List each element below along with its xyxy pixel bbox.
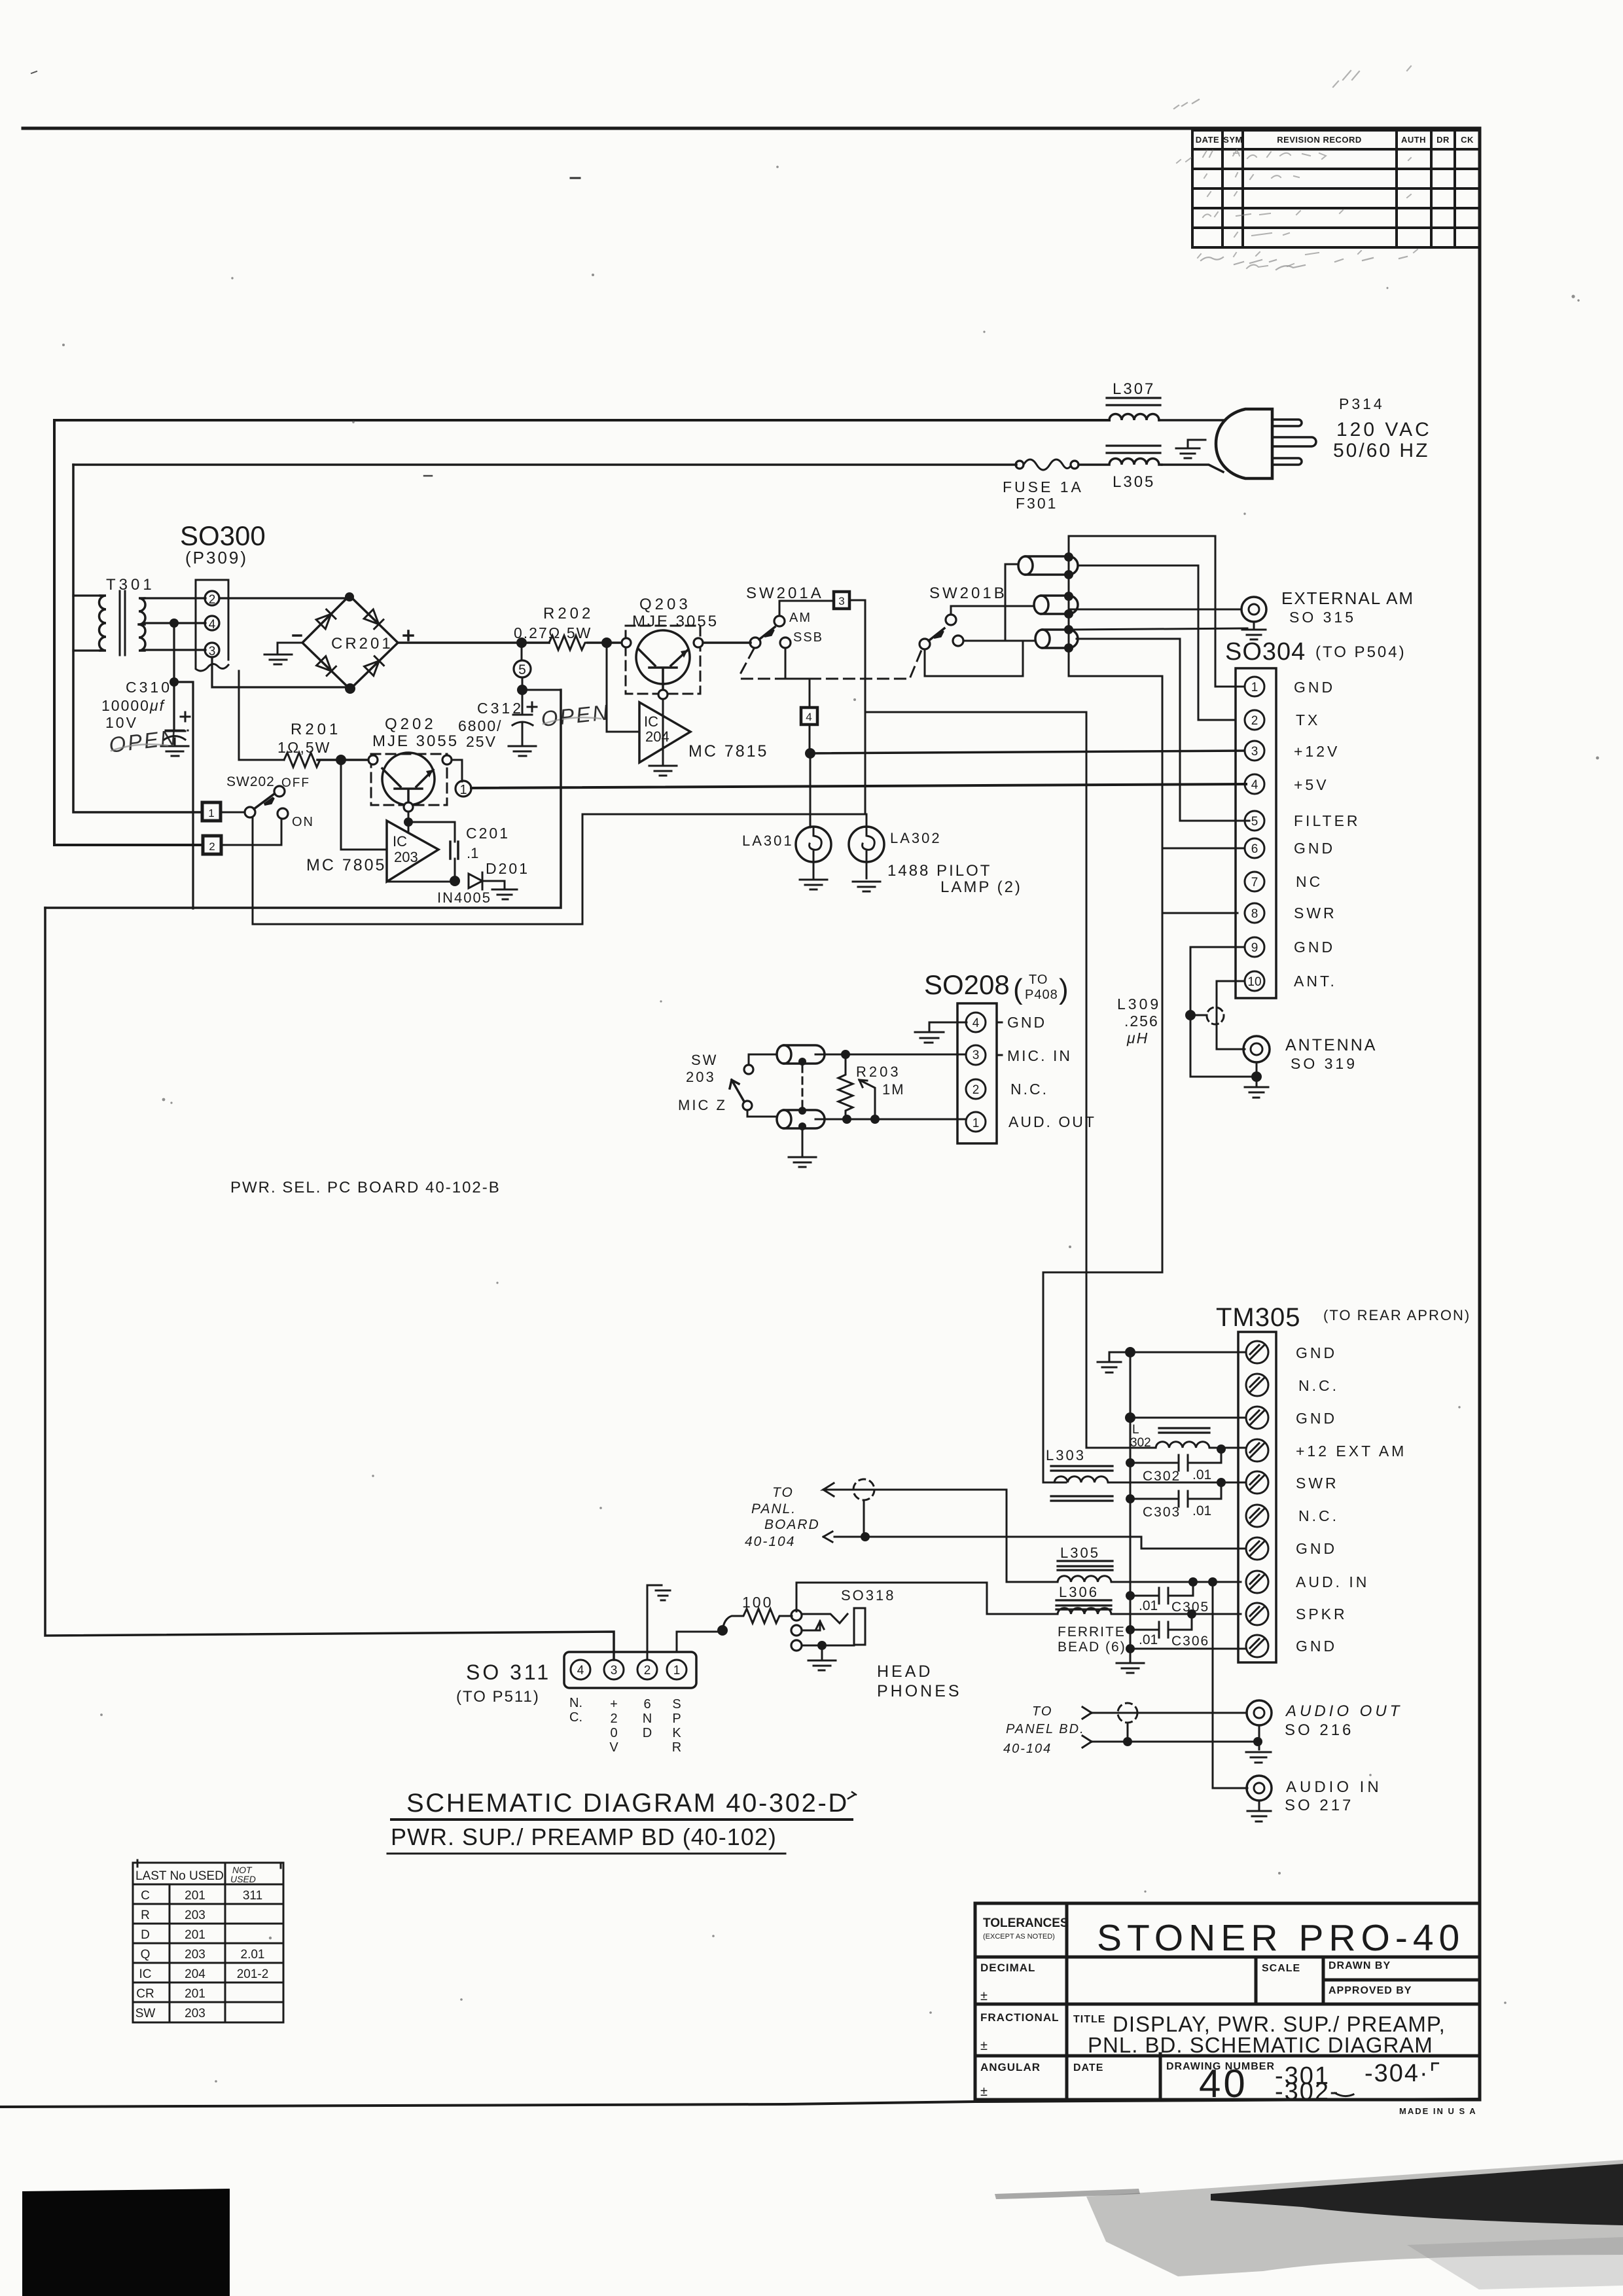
fuse F301	[1016, 461, 1024, 469]
svg-text:SWR: SWR	[1296, 1475, 1339, 1492]
svg-text:TITLE: TITLE	[1073, 2014, 1105, 2025]
wiper arrow R203	[859, 1080, 875, 1119]
svg-text:D201: D201	[486, 860, 529, 877]
connector SO208 box	[957, 1003, 997, 1143]
svg-text:2.01: 2.01	[241, 1948, 265, 1962]
wire pin3 area down to R201	[239, 671, 284, 760]
svg-text:μH: μH	[1126, 1030, 1149, 1047]
svg-text:ANT.: ANT.	[1294, 973, 1337, 990]
svg-text:BOARD: BOARD	[764, 1517, 820, 1532]
svg-text:(EXCEPT AS NOTED): (EXCEPT AS NOTED)	[983, 1933, 1055, 1941]
wire C310-branch to x295 vertical	[174, 682, 193, 908]
faint pencil marks below revision table	[1174, 99, 1407, 270]
svg-text:311: 311	[243, 1889, 262, 1903]
wire primary bottom	[73, 649, 100, 651]
svg-text:MJE 3055: MJE 3055	[372, 732, 459, 750]
capacitor C201 wires	[387, 822, 455, 882]
label TO PANEL BOARD 40-104	[745, 1485, 820, 1549]
svg-text:GND: GND	[1296, 1344, 1337, 1361]
resistor R202	[549, 636, 588, 650]
svg-text:PNL. BD. SCHEMATIC DIAGRAM: PNL. BD. SCHEMATIC DIAGRAM	[1088, 2033, 1433, 2057]
connector square 1	[202, 802, 221, 821]
svg-text:AUD. OUT: AUD. OUT	[1008, 1113, 1096, 1130]
resistor R201	[284, 753, 323, 767]
svg-text:4: 4	[1251, 778, 1258, 792]
AC plug P314	[1216, 409, 1272, 478]
svg-text:.01: .01	[1139, 1632, 1158, 1647]
small stray mark top left	[31, 71, 37, 73]
svg-text:P408: P408	[1025, 988, 1058, 1002]
svg-text:L: L	[1132, 1423, 1139, 1437]
connector square 3	[834, 592, 849, 609]
svg-text:±: ±	[980, 2039, 988, 2053]
node dot R203 bottom	[842, 1115, 851, 1124]
bridge CR201 outline	[302, 596, 398, 689]
svg-text:N.: N.	[569, 1696, 582, 1710]
svg-text:201: 201	[185, 1987, 205, 2001]
svg-text:(P309): (P309)	[185, 548, 248, 567]
wire square3 to lamp riser	[849, 600, 865, 814]
svg-text:GND: GND	[1296, 1540, 1337, 1557]
svg-text:REVISION RECORD: REVISION RECORD	[1277, 135, 1362, 145]
node dot wiper	[870, 1115, 880, 1124]
svg-text:AUTH: AUTH	[1401, 135, 1426, 145]
inductor L305 core	[1058, 1566, 1113, 1570]
mic plug upper	[777, 1045, 825, 1064]
ground at antenna	[1245, 1077, 1268, 1098]
wire down to IC203 input	[341, 760, 387, 850]
wire pin2 to bridge top	[219, 597, 349, 599]
wire Q202 emitter to node 1	[452, 760, 462, 781]
svg-text:CR201: CR201	[331, 635, 393, 653]
svg-text:MJE 3055: MJE 3055	[632, 613, 719, 630]
ground at SO311 pin2	[647, 1585, 670, 1660]
svg-text:PANL.: PANL.	[751, 1501, 796, 1516]
svg-text:4: 4	[577, 1664, 584, 1677]
svg-text:S: S	[672, 1697, 681, 1712]
svg-text:+12V: +12V	[1294, 743, 1340, 760]
svg-text:5: 5	[1251, 815, 1258, 829]
stray mark above title	[848, 1792, 856, 1799]
svg-text:SWR: SWR	[1294, 905, 1337, 922]
svg-text:AUDIO IN: AUDIO IN	[1286, 1778, 1382, 1796]
transistor Q202	[382, 753, 435, 805]
node dot bridge top	[345, 592, 354, 601]
svg-text:4: 4	[209, 618, 216, 632]
connector AUDIO IN SO217	[1247, 1776, 1272, 1801]
wire SWR arrow line	[831, 1490, 1058, 1582]
capacitor C302	[1130, 1449, 1221, 1471]
connector ANTENNA SO319	[1243, 1036, 1270, 1062]
svg-text:MC 7815: MC 7815	[688, 742, 768, 761]
wire coax3 center to FILTER riser	[1077, 639, 1249, 821]
svg-text:Q: Q	[141, 1948, 151, 1962]
svg-text:7: 7	[1251, 876, 1258, 889]
svg-text:40-104: 40-104	[745, 1534, 795, 1549]
pencil marks above revision table	[1333, 66, 1411, 87]
circled node 1	[455, 781, 471, 797]
svg-text:R201: R201	[291, 721, 341, 738]
plug ground wire	[1188, 440, 1205, 448]
svg-text:2: 2	[1251, 714, 1258, 728]
svg-text:PWR. SEL. PC BOARD 40-102-B: PWR. SEL. PC BOARD 40-102-B	[230, 1179, 501, 1196]
svg-text:3: 3	[611, 1664, 618, 1677]
svg-text:203: 203	[185, 1948, 205, 1962]
svg-text:C201: C201	[466, 825, 510, 842]
svg-text:3: 3	[972, 1049, 980, 1062]
svg-text:3: 3	[1251, 745, 1258, 759]
svg-text:204: 204	[645, 728, 669, 745]
svg-text:L307: L307	[1113, 380, 1155, 398]
inductor L303 core	[1051, 1466, 1113, 1471]
svg-text:1: 1	[673, 1664, 681, 1677]
wire panel gnd to TM305	[834, 1537, 1246, 1549]
svg-text:L305: L305	[1113, 473, 1155, 491]
wire lower loop	[45, 690, 561, 908]
svg-text:3: 3	[838, 595, 844, 607]
svg-text:6: 6	[643, 1697, 651, 1712]
svg-text:SO 319: SO 319	[1291, 1055, 1357, 1072]
svg-text:TO: TO	[1032, 1704, 1052, 1719]
svg-text:SCALE: SCALE	[1262, 1963, 1300, 1974]
svg-text:FILTER: FILTER	[1294, 812, 1361, 829]
transformer T301 primary	[99, 596, 107, 651]
inductor L306 core	[1056, 1605, 1111, 1609]
inductor L302	[1156, 1442, 1246, 1448]
wire into plug lower	[1162, 465, 1223, 472]
wire Q203 to SW201A	[703, 641, 751, 644]
node dot SWR row	[1217, 1478, 1226, 1487]
svg-text:R203: R203	[856, 1064, 901, 1080]
faint handwriting in revision table	[1177, 150, 1418, 268]
svg-text:1M: 1M	[882, 1081, 905, 1098]
svg-text:2: 2	[610, 1712, 617, 1726]
shield dots	[1064, 552, 1073, 562]
svg-text:±: ±	[980, 1989, 988, 2003]
svg-text:Q202: Q202	[385, 715, 437, 733]
connector SO311	[564, 1652, 696, 1688]
jack body SO318	[854, 1608, 865, 1645]
wire R201 to Q202	[317, 759, 368, 761]
svg-text:FERRITE: FERRITE	[1058, 1624, 1126, 1640]
svg-text:DATE: DATE	[1196, 135, 1219, 145]
svg-text:6800/: 6800/	[458, 717, 503, 734]
wire Q203 base through IC204 to ground	[662, 699, 664, 766]
dashed gang linkage SW201A-SW201B	[740, 649, 922, 679]
svg-text:(: (	[1013, 973, 1023, 1005]
wire upper contact to coax2	[951, 606, 1034, 615]
svg-text:C: C	[141, 1889, 150, 1903]
regulator IC204	[639, 702, 690, 762]
ground at SO208 pin4	[915, 1022, 967, 1043]
svg-text:.01: .01	[1139, 1598, 1158, 1613]
svg-text:0: 0	[610, 1726, 617, 1740]
wire SW201B common down	[925, 641, 1023, 676]
svg-text:1: 1	[972, 1117, 980, 1130]
inductor L309	[1196, 1014, 1207, 1016]
wire SSB contact to square 4	[785, 648, 810, 679]
svg-text:10000μf: 10000μf	[101, 697, 166, 714]
wire AC hot top	[54, 419, 1109, 422]
svg-text:+12 EXT AM: +12 EXT AM	[1296, 1443, 1406, 1460]
svg-text:ON: ON	[292, 815, 314, 829]
wire pin3 down and right to bridge bottom	[212, 657, 350, 687]
bridge diode top-right	[364, 609, 383, 629]
svg-text:+: +	[610, 1697, 618, 1712]
plus sign C312	[527, 702, 537, 711]
svg-text:SO 216: SO 216	[1285, 1721, 1353, 1739]
svg-text:(TO P504): (TO P504)	[1315, 643, 1406, 661]
svg-text:SO 315: SO 315	[1289, 609, 1356, 626]
svg-text:N.C.: N.C.	[1010, 1081, 1048, 1098]
mic shield ground	[789, 1130, 816, 1167]
handwritten OPEN near C310	[107, 725, 179, 757]
svg-text:203: 203	[185, 1909, 205, 1922]
svg-text:1Ω,5W: 1Ω,5W	[277, 739, 330, 756]
svg-text:SW202: SW202	[226, 774, 275, 789]
jack tip spring	[802, 1614, 847, 1623]
svg-text:203: 203	[185, 2007, 205, 2020]
node dot gnd row	[1126, 1644, 1135, 1653]
svg-text:MADE IN U S A: MADE IN U S A	[1399, 2106, 1477, 2116]
jack wiper arrow	[802, 1621, 824, 1630]
regulator IC203	[387, 821, 438, 882]
svg-text:TX: TX	[1296, 711, 1320, 728]
svg-text:201: 201	[185, 1889, 205, 1903]
svg-text:GND: GND	[1007, 1014, 1046, 1031]
inductor L307	[1109, 414, 1159, 421]
switch SW201B	[919, 639, 930, 649]
svg-text:±: ±	[980, 2085, 988, 2099]
svg-text:AUDIO OUT: AUDIO OUT	[1285, 1702, 1402, 1720]
lamp LA302	[849, 827, 884, 862]
svg-text:FUSE 1A: FUSE 1A	[1003, 478, 1084, 495]
svg-text:2: 2	[209, 593, 216, 607]
capacitor C305	[1130, 1582, 1193, 1604]
wire coax1 center to SO304 pin2 TX	[1078, 565, 1234, 720]
switch SW202	[221, 812, 245, 814]
svg-text:STONER PRO-40: STONER PRO-40	[1097, 1917, 1465, 1959]
svg-text:SO208: SO208	[924, 969, 1010, 1000]
wire dashed circle to gnd line	[863, 1500, 865, 1537]
svg-text:R: R	[141, 1909, 150, 1922]
svg-text:DRAWN BY: DRAWN BY	[1329, 1960, 1391, 1971]
svg-text:APPROVED BY: APPROVED BY	[1329, 1985, 1412, 1996]
svg-text:50/60 HZ: 50/60 HZ	[1333, 440, 1429, 461]
transformer T301 core	[120, 591, 125, 655]
page border top	[23, 127, 1480, 130]
terminal block TM305	[1238, 1332, 1276, 1662]
node dot SPKR row	[1187, 1609, 1196, 1619]
ground LA302	[853, 862, 880, 891]
svg-text:2: 2	[644, 1664, 651, 1677]
capacitor C303	[1130, 1482, 1221, 1507]
dashed circle on SWR line	[853, 1479, 874, 1500]
svg-text:SW: SW	[135, 2007, 156, 2020]
inductor L305	[1058, 1576, 1241, 1582]
svg-text:K: K	[672, 1726, 681, 1740]
plug prong 2 (ground)	[1272, 437, 1316, 446]
wire +12V rail to SO304 pin3	[810, 751, 1244, 753]
ground below C310	[161, 746, 188, 756]
node dot IC203 tap	[336, 755, 346, 765]
wire shield to EXTERNAL AM	[1069, 609, 1241, 611]
svg-text:-302-: -302-	[1275, 2078, 1340, 2106]
pin labels SO311	[569, 1696, 681, 1755]
svg-text:100: 100	[742, 1594, 773, 1611]
transformer T301 secondary	[139, 598, 145, 651]
wire primary top	[73, 594, 100, 596]
bridge diode bottom-right	[365, 656, 384, 676]
svg-text:D: D	[141, 1928, 150, 1942]
wire headphone tip to L306	[796, 1583, 1058, 1614]
plug prong 3	[1272, 458, 1302, 465]
svg-text:L309: L309	[1117, 996, 1161, 1013]
svg-text:120 VAC: 120 VAC	[1336, 419, 1432, 440]
inductor L303 core lower	[1051, 1496, 1113, 1501]
coax cable 2	[1034, 596, 1078, 614]
inductor L306	[1079, 459, 1162, 465]
svg-text:ANTENNA: ANTENNA	[1285, 1036, 1377, 1054]
svg-text:1: 1	[208, 807, 214, 819]
ground below IC204	[649, 766, 677, 776]
revision table	[1192, 130, 1480, 247]
wire secondary tap to pin4	[145, 622, 205, 624]
svg-text:EXTERNAL AM: EXTERNAL AM	[1281, 588, 1414, 608]
wire riser to coax1	[1005, 564, 1018, 641]
scan dust specks	[62, 166, 1599, 2083]
svg-text:ANGULAR: ANGULAR	[980, 2061, 1041, 2073]
node dot D201	[450, 876, 460, 886]
wire left vertical x83	[54, 420, 202, 845]
capacitor C310	[166, 730, 188, 731]
node dot +12V rail	[805, 748, 815, 759]
wire contact B to coax3	[963, 640, 1035, 642]
connector AUDIO OUT SO216	[1247, 1700, 1272, 1725]
connector SO304 box	[1236, 668, 1276, 998]
svg-text:HEAD: HEAD	[877, 1662, 933, 1681]
wire bridge left to ground	[277, 643, 302, 653]
ground at D201	[492, 889, 517, 899]
transistor Q203	[636, 630, 690, 684]
svg-text:C.: C.	[569, 1710, 582, 1725]
svg-text:203: 203	[394, 849, 418, 865]
underline of 302 handwriting	[1335, 2093, 1353, 2096]
svg-text:40-104: 40-104	[1003, 1742, 1052, 1756]
svg-text:40: 40	[1199, 2062, 1248, 2106]
connector square 2	[203, 836, 221, 854]
label TO PANEL BD 40-104	[1003, 1704, 1085, 1756]
wire mic lower to AUD OUT	[815, 1119, 966, 1121]
svg-text:OFF: OFF	[281, 776, 310, 790]
svg-text:P: P	[672, 1712, 681, 1726]
mic plug lower	[777, 1110, 825, 1128]
svg-text:C310: C310	[126, 679, 172, 696]
svg-text:1488 PILOT: 1488 PILOT	[887, 862, 991, 880]
wire +12 EXT AM	[865, 712, 1156, 1448]
dashed circle audio out	[1118, 1703, 1137, 1723]
node dot antenna ground	[1251, 1071, 1262, 1082]
wire shield to EXTERNAL AM ground	[1069, 628, 1247, 630]
node dot at C312 tap	[516, 637, 527, 648]
svg-text:5: 5	[518, 662, 526, 677]
svg-text:AUD. IN: AUD. IN	[1296, 1573, 1369, 1590]
svg-text:MC 7805: MC 7805	[306, 856, 386, 874]
jack sleeve to ground	[802, 1645, 854, 1647]
ground at bridge	[264, 655, 292, 664]
svg-text:0.27Ω,5W: 0.27Ω,5W	[514, 624, 592, 641]
wire +5V rail to SO304 pin4	[471, 784, 1246, 788]
svg-text:IC: IC	[139, 1967, 152, 1981]
svg-text:T301: T301	[106, 576, 155, 594]
svg-text:DATE: DATE	[1073, 2062, 1103, 2073]
circled node 5	[521, 643, 523, 660]
wire C312 node to x857 riser	[522, 690, 561, 787]
svg-text:L305: L305	[1060, 1545, 1100, 1561]
svg-text:8: 8	[1251, 907, 1258, 921]
wire pin9 to antenna ground	[1190, 947, 1257, 1077]
svg-text:.01: .01	[1192, 1503, 1211, 1518]
svg-text:6: 6	[1251, 842, 1258, 856]
svg-text:9: 9	[1251, 941, 1258, 955]
wire antenna to ground dot	[1256, 1062, 1258, 1077]
svg-text:TM305: TM305	[1216, 1303, 1301, 1332]
svg-text:C306: C306	[1171, 1634, 1209, 1649]
svg-text:GND: GND	[1294, 939, 1335, 956]
svg-text:P314: P314	[1339, 395, 1385, 412]
svg-text:10: 10	[1247, 975, 1261, 989]
svg-text:204: 204	[185, 1967, 205, 1981]
svg-text:2: 2	[209, 840, 215, 853]
svg-text:N.C.: N.C.	[1298, 1377, 1339, 1394]
svg-text:GND: GND	[1296, 1410, 1337, 1427]
svg-text:302: 302	[1130, 1436, 1151, 1450]
svg-text:CR: CR	[136, 1987, 154, 2001]
svg-text:): )	[1059, 973, 1069, 1005]
svg-text:SW201B: SW201B	[929, 584, 1007, 602]
connector EXTERNAL AM SO315	[1241, 597, 1266, 622]
inductor L306 filter	[1058, 1608, 1241, 1614]
plus sign C310	[181, 712, 190, 721]
node dot C312 top	[517, 685, 527, 695]
svg-text:-304·⌜: -304·⌜	[1364, 2060, 1442, 2087]
resistor 100	[722, 1609, 792, 1630]
svg-text:(TO REAR APRON): (TO REAR APRON)	[1323, 1307, 1471, 1323]
inductor L302 core	[1159, 1428, 1209, 1433]
svg-text:LA301: LA301	[742, 833, 794, 849]
svg-text:.01: .01	[1192, 1467, 1211, 1482]
svg-text:SO318: SO318	[841, 1587, 896, 1604]
node dot L309	[1185, 1010, 1196, 1020]
svg-text:PWR. SUP./ PREAMP BD (40-102: PWR. SUP./ PREAMP BD (40-102)	[391, 1823, 777, 1850]
node dot R203 top	[841, 1050, 850, 1059]
svg-text:4: 4	[806, 711, 811, 723]
svg-text:DR: DR	[1436, 135, 1450, 145]
wire secondary bottom to pin3	[145, 649, 205, 651]
svg-text:4: 4	[972, 1016, 980, 1030]
svg-text:D: D	[643, 1726, 652, 1740]
svg-text:IN4005: IN4005	[437, 889, 491, 906]
ground below C312	[508, 746, 536, 756]
wire R202 to Q203	[588, 641, 622, 644]
ground LA301	[800, 862, 827, 889]
svg-text:LAMP (2): LAMP (2)	[940, 878, 1022, 896]
svg-text:GND: GND	[1296, 1638, 1337, 1655]
svg-text:SO300: SO300	[180, 520, 266, 551]
svg-text:SYM: SYM	[1223, 135, 1243, 145]
switch SW203	[749, 1054, 777, 1065]
svg-text:TO: TO	[772, 1485, 794, 1500]
